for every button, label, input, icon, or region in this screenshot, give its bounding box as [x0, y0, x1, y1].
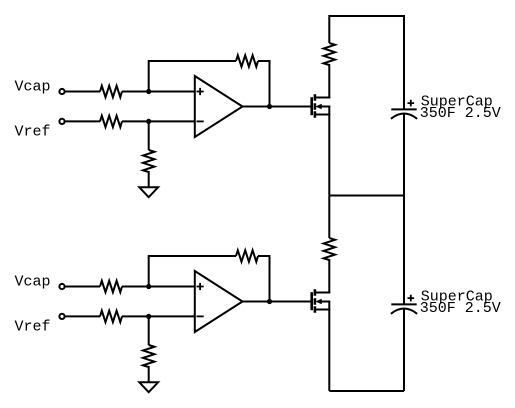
wire [122, 286, 195, 288]
ground [139, 187, 158, 197]
wire [65, 286, 100, 288]
svg-text:350F 2.5V: 350F 2.5V [420, 300, 501, 317]
resistor R1 [100, 86, 122, 97]
wire [148, 171, 150, 187]
terminal pin Vcap bottom [59, 284, 64, 289]
junction node C [146, 284, 151, 289]
junction output node top [267, 104, 272, 109]
wire [149, 256, 236, 287]
wire [148, 316, 150, 345]
wire [122, 120, 195, 122]
transistor Q1 [312, 94, 331, 118]
wire [328, 259, 330, 293]
wire bottom rail [329, 390, 404, 392]
wire [122, 315, 195, 317]
wire [148, 366, 150, 382]
transistor Q2 [312, 289, 331, 313]
wire [328, 64, 330, 98]
svg-text:Vcap: Vcap [15, 274, 51, 291]
junction node D [146, 314, 151, 319]
wire top rail [329, 16, 404, 109]
svg-text:350F 2.5V: 350F 2.5V [420, 105, 501, 122]
wire [258, 256, 270, 302]
wire [148, 121, 150, 150]
resistor R3 feedback [236, 55, 258, 66]
junction node B [146, 119, 151, 124]
svg-text:Vcap: Vcap [15, 79, 51, 96]
svg-text:Vref: Vref [15, 319, 51, 336]
resistor R2 [100, 116, 122, 127]
resistor R7 [100, 311, 122, 322]
capacitor C1 SuperCap [391, 100, 417, 119]
junction output node bottom [267, 299, 272, 304]
resistor R9 [143, 345, 154, 367]
op-amp U1 [195, 76, 243, 137]
wire [328, 196, 330, 239]
wire [65, 315, 100, 317]
resistor R6 [100, 281, 122, 292]
resistor R8 feedback [236, 250, 258, 261]
terminal pin Vref top [59, 119, 64, 124]
capacitor C2 SuperCap [391, 295, 417, 314]
wire [403, 309, 405, 391]
wire [403, 196, 405, 305]
junction node A [146, 89, 151, 94]
terminal pin Vref bottom [59, 314, 64, 319]
svg-text:Vref: Vref [15, 124, 51, 141]
wire middle rail [329, 195, 404, 197]
wire [65, 120, 100, 122]
op-amp U2 [195, 271, 243, 332]
resistor R4 [143, 150, 154, 172]
resistor R5 drain [324, 43, 335, 65]
wire [258, 61, 270, 107]
ground [139, 382, 158, 392]
wire [243, 301, 312, 303]
resistor R10 drain [324, 238, 335, 260]
wire [403, 114, 405, 196]
wire [328, 302, 330, 392]
wire [328, 107, 330, 196]
wire [65, 91, 100, 93]
terminal pin Vcap top [59, 89, 64, 94]
wire [122, 91, 195, 93]
wire [149, 61, 236, 92]
wire [243, 106, 312, 108]
